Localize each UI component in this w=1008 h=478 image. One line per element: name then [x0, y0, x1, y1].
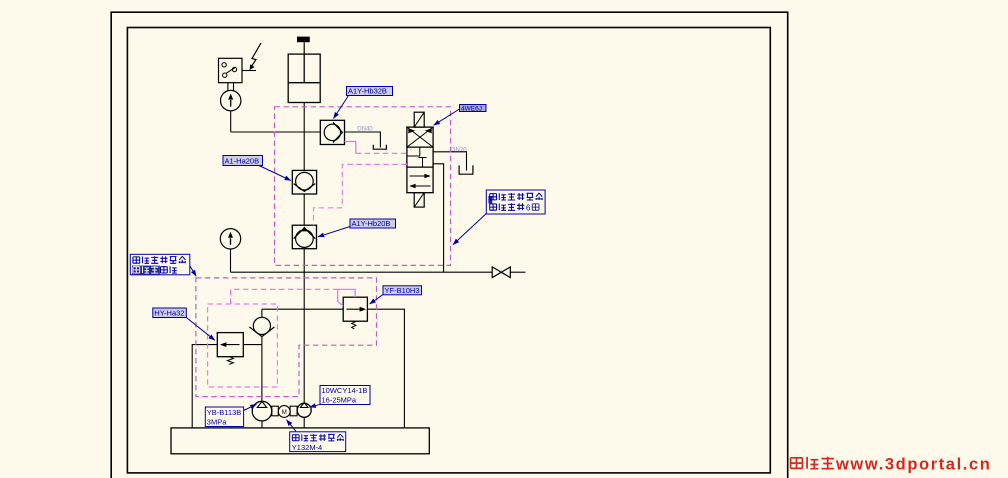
leader to motor: [287, 420, 297, 432]
cylinder anvil load: [297, 37, 310, 43]
leader note machine body: [453, 214, 486, 245]
oil tank: [171, 428, 429, 454]
electric motor M: [278, 406, 290, 418]
U1 parallel arrows position: [410, 175, 429, 177]
pink dashed line to U1: [356, 152, 407, 154]
pressure gauge G2: [220, 229, 240, 249]
check valve V3 A1Y-Hb20B: [292, 225, 316, 249]
wire RV1 outlet to tank: [192, 345, 217, 428]
dashed enclosure box A valve group: [275, 107, 451, 266]
leader to P1: [244, 404, 257, 410]
pink step line at V1: [345, 142, 356, 154]
wire RV1 inlet: [243, 344, 262, 346]
shutoff valve bowtie: [492, 267, 501, 278]
pressure switch contacts: [222, 63, 226, 67]
label note tank panel: [130, 254, 190, 274]
wire main vertical from cylinder: [303, 103, 305, 171]
svg-text:A1Y-Hb20B: A1Y-Hb20B: [352, 219, 391, 228]
label motor Y132M-4: [290, 432, 346, 452]
RV2 pilot loop: [338, 289, 356, 306]
U1 crossed arrows position: [407, 127, 433, 147]
switch to gauge links: [227, 83, 229, 91]
outer drawing border: [111, 12, 788, 478]
watermark 3dportal: [791, 457, 834, 469]
tank symbol T1: [373, 145, 386, 149]
leader to V3: [318, 227, 350, 237]
svg-text:16-25MPa: 16-25MPa: [322, 396, 357, 405]
svg-text:4WE6J: 4WE6J: [461, 106, 482, 113]
wire main vertical to pump P2: [303, 272, 305, 402]
svg-text:M: M: [282, 410, 287, 416]
svg-text:HY-Ha32: HY-Ha32: [154, 309, 184, 318]
wire YF outlet to return: [367, 309, 404, 428]
leader to RV1: [186, 318, 215, 341]
leader to U1: [434, 109, 460, 125]
coupling left: [272, 406, 279, 416]
wire main horizontal line: [231, 271, 493, 273]
relief valve RV1 HY-Ha32: [217, 333, 243, 357]
leader note tank panel: [190, 266, 196, 276]
wire U1 to tank T2: [433, 152, 466, 171]
svg-text:DN20: DN20: [451, 147, 467, 153]
dashed pilot line: [231, 289, 338, 304]
pressure switch box: [219, 58, 243, 82]
relief valve RV2 YF-B10H3: [343, 297, 367, 321]
tank symbol T2: [459, 165, 473, 174]
svg-text:6: 6: [526, 204, 531, 213]
label 4WE6J: [460, 105, 487, 112]
wire between V2 V3: [303, 194, 305, 225]
leader to V1: [334, 96, 349, 119]
directional valve U1 4WE6J body: [407, 127, 433, 193]
dashed enclosure box B pump station: [196, 278, 377, 397]
svg-text:YF-B10H3: YF-B10H3: [385, 286, 420, 295]
wire gauge G2 down: [230, 249, 232, 272]
svg-text:A1-Ha20B: A1-Ha20B: [225, 157, 260, 166]
cylinder piston line: [288, 82, 320, 84]
wire pump P2 to tank: [303, 417, 305, 428]
check valve V4 ball seat: [261, 309, 263, 317]
label 10WCY14-1B: [320, 386, 370, 405]
svg-text:www.3dportal.cn: www.3dportal.cn: [835, 456, 991, 474]
pressure gauge G1: [221, 90, 241, 110]
solenoid top of U1: [414, 112, 424, 127]
label note machine body: [486, 190, 545, 214]
wire pump P1 to tank: [261, 421, 263, 428]
wire top manifold horizontal: [231, 131, 321, 133]
RV1 spring: [227, 357, 233, 365]
check valve V2 A1-Ha20B: [292, 170, 316, 194]
coupling right: [290, 406, 297, 416]
label A1Y-Hb32B: [347, 87, 393, 96]
leader to RV2: [370, 295, 383, 305]
pump P2: [297, 403, 311, 417]
leader to V2: [259, 166, 291, 181]
pump P1: [252, 401, 272, 421]
svg-text:YB-B113B: YB-B113B: [207, 408, 241, 417]
actuation arrow bolt: [252, 43, 261, 66]
cylinder rod stem: [303, 42, 305, 54]
dashed partition inside box A: [314, 164, 407, 225]
cylinder rod inside: [303, 54, 305, 83]
inner drawing border: [127, 28, 770, 473]
leader to P2: [310, 404, 321, 407]
label A1-Ha20B: [223, 156, 263, 166]
pressure switch stub wire: [242, 70, 256, 72]
wire pressure line to YF valve: [262, 308, 343, 310]
wire U1 drain down: [433, 164, 444, 272]
wire V3 down to junction: [303, 249, 305, 273]
svg-text:3MPa: 3MPa: [207, 417, 227, 426]
hydraulic cylinder body: [288, 54, 320, 102]
label HY-Ha32: [153, 308, 187, 318]
svg-text:10WCY14-1B: 10WCY14-1B: [322, 386, 368, 395]
wire after shutoff: [510, 271, 525, 273]
check valve V1 A1Y-Hb32B: [320, 120, 344, 144]
RV2 spring: [352, 321, 356, 329]
label YB-B113B 3MPa: [205, 407, 243, 427]
wire gauge G1 down: [230, 111, 232, 132]
wire V1 outlet: [345, 132, 381, 148]
svg-text:DN40: DN40: [357, 127, 373, 133]
label YF-B10H3: [383, 286, 422, 295]
label A1Y-Hb20B: [350, 219, 396, 228]
U1 center position ports: [407, 147, 420, 156]
svg-text:A1Y-Hb32B: A1Y-Hb32B: [348, 87, 387, 96]
dashed enclosure box C relief group: [208, 304, 278, 387]
wire V4 to pump P1: [261, 337, 263, 402]
svg-text:Y132M-4: Y132M-4: [292, 443, 322, 452]
solenoid bottom of U1: [414, 193, 424, 207]
